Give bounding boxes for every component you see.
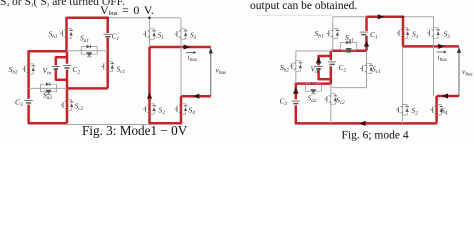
svg-text:S1: S1 [158,31,165,42]
svg-text:S3: S3 [190,31,197,42]
svg-text:C1: C1 [370,30,378,41]
svg-text:Sb2: Sb2 [9,65,18,76]
svg-text:Sa2: Sa2 [308,94,317,105]
svg-text:S4: S4 [189,106,196,117]
svg-text:Sa1: Sa1 [80,34,89,45]
svg-text:S2: S2 [412,106,419,117]
svg-text:Sb1: Sb1 [49,30,58,41]
svg-text:S1: S1 [412,30,419,41]
svg-text:Fig. 3: Mode1 − 0V: Fig. 3: Mode1 − 0V [82,123,188,138]
svg-text:Sc1: Sc1 [372,65,381,76]
svg-text:Sc1: Sc1 [117,65,126,76]
svg-text:S3: S3 [444,30,451,41]
svg-text:Sb2: Sb2 [280,63,289,74]
svg-text:Sc2: Sc2 [336,96,345,107]
svg-text:C1: C1 [112,32,120,43]
svg-text:S4: S4 [441,106,448,117]
svg-text:ibus: ibus [438,53,447,63]
svg-text:C3: C3 [15,98,23,109]
svg-text:Sb1: Sb1 [315,29,324,40]
svg-text:Vin: Vin [311,64,320,75]
svg-text:C2: C2 [339,63,347,74]
svg-text:vbus: vbus [462,67,473,77]
svg-text:Vin: Vin [43,66,52,77]
svg-text:Fig. 6; mode 4: Fig. 6; mode 4 [342,130,409,142]
svg-text:Vbus = 0 V.: Vbus = 0 V. [100,3,154,17]
svg-text:ibus: ibus [188,53,197,63]
svg-text:output can be obtained.: output can be obtained. [250,0,357,12]
svg-text:vbus: vbus [216,66,227,76]
svg-text:C3: C3 [280,97,288,108]
svg-text:C2: C2 [73,65,81,76]
svg-text:Sc2: Sc2 [75,102,84,113]
svg-text:S2: S2 [159,106,166,117]
